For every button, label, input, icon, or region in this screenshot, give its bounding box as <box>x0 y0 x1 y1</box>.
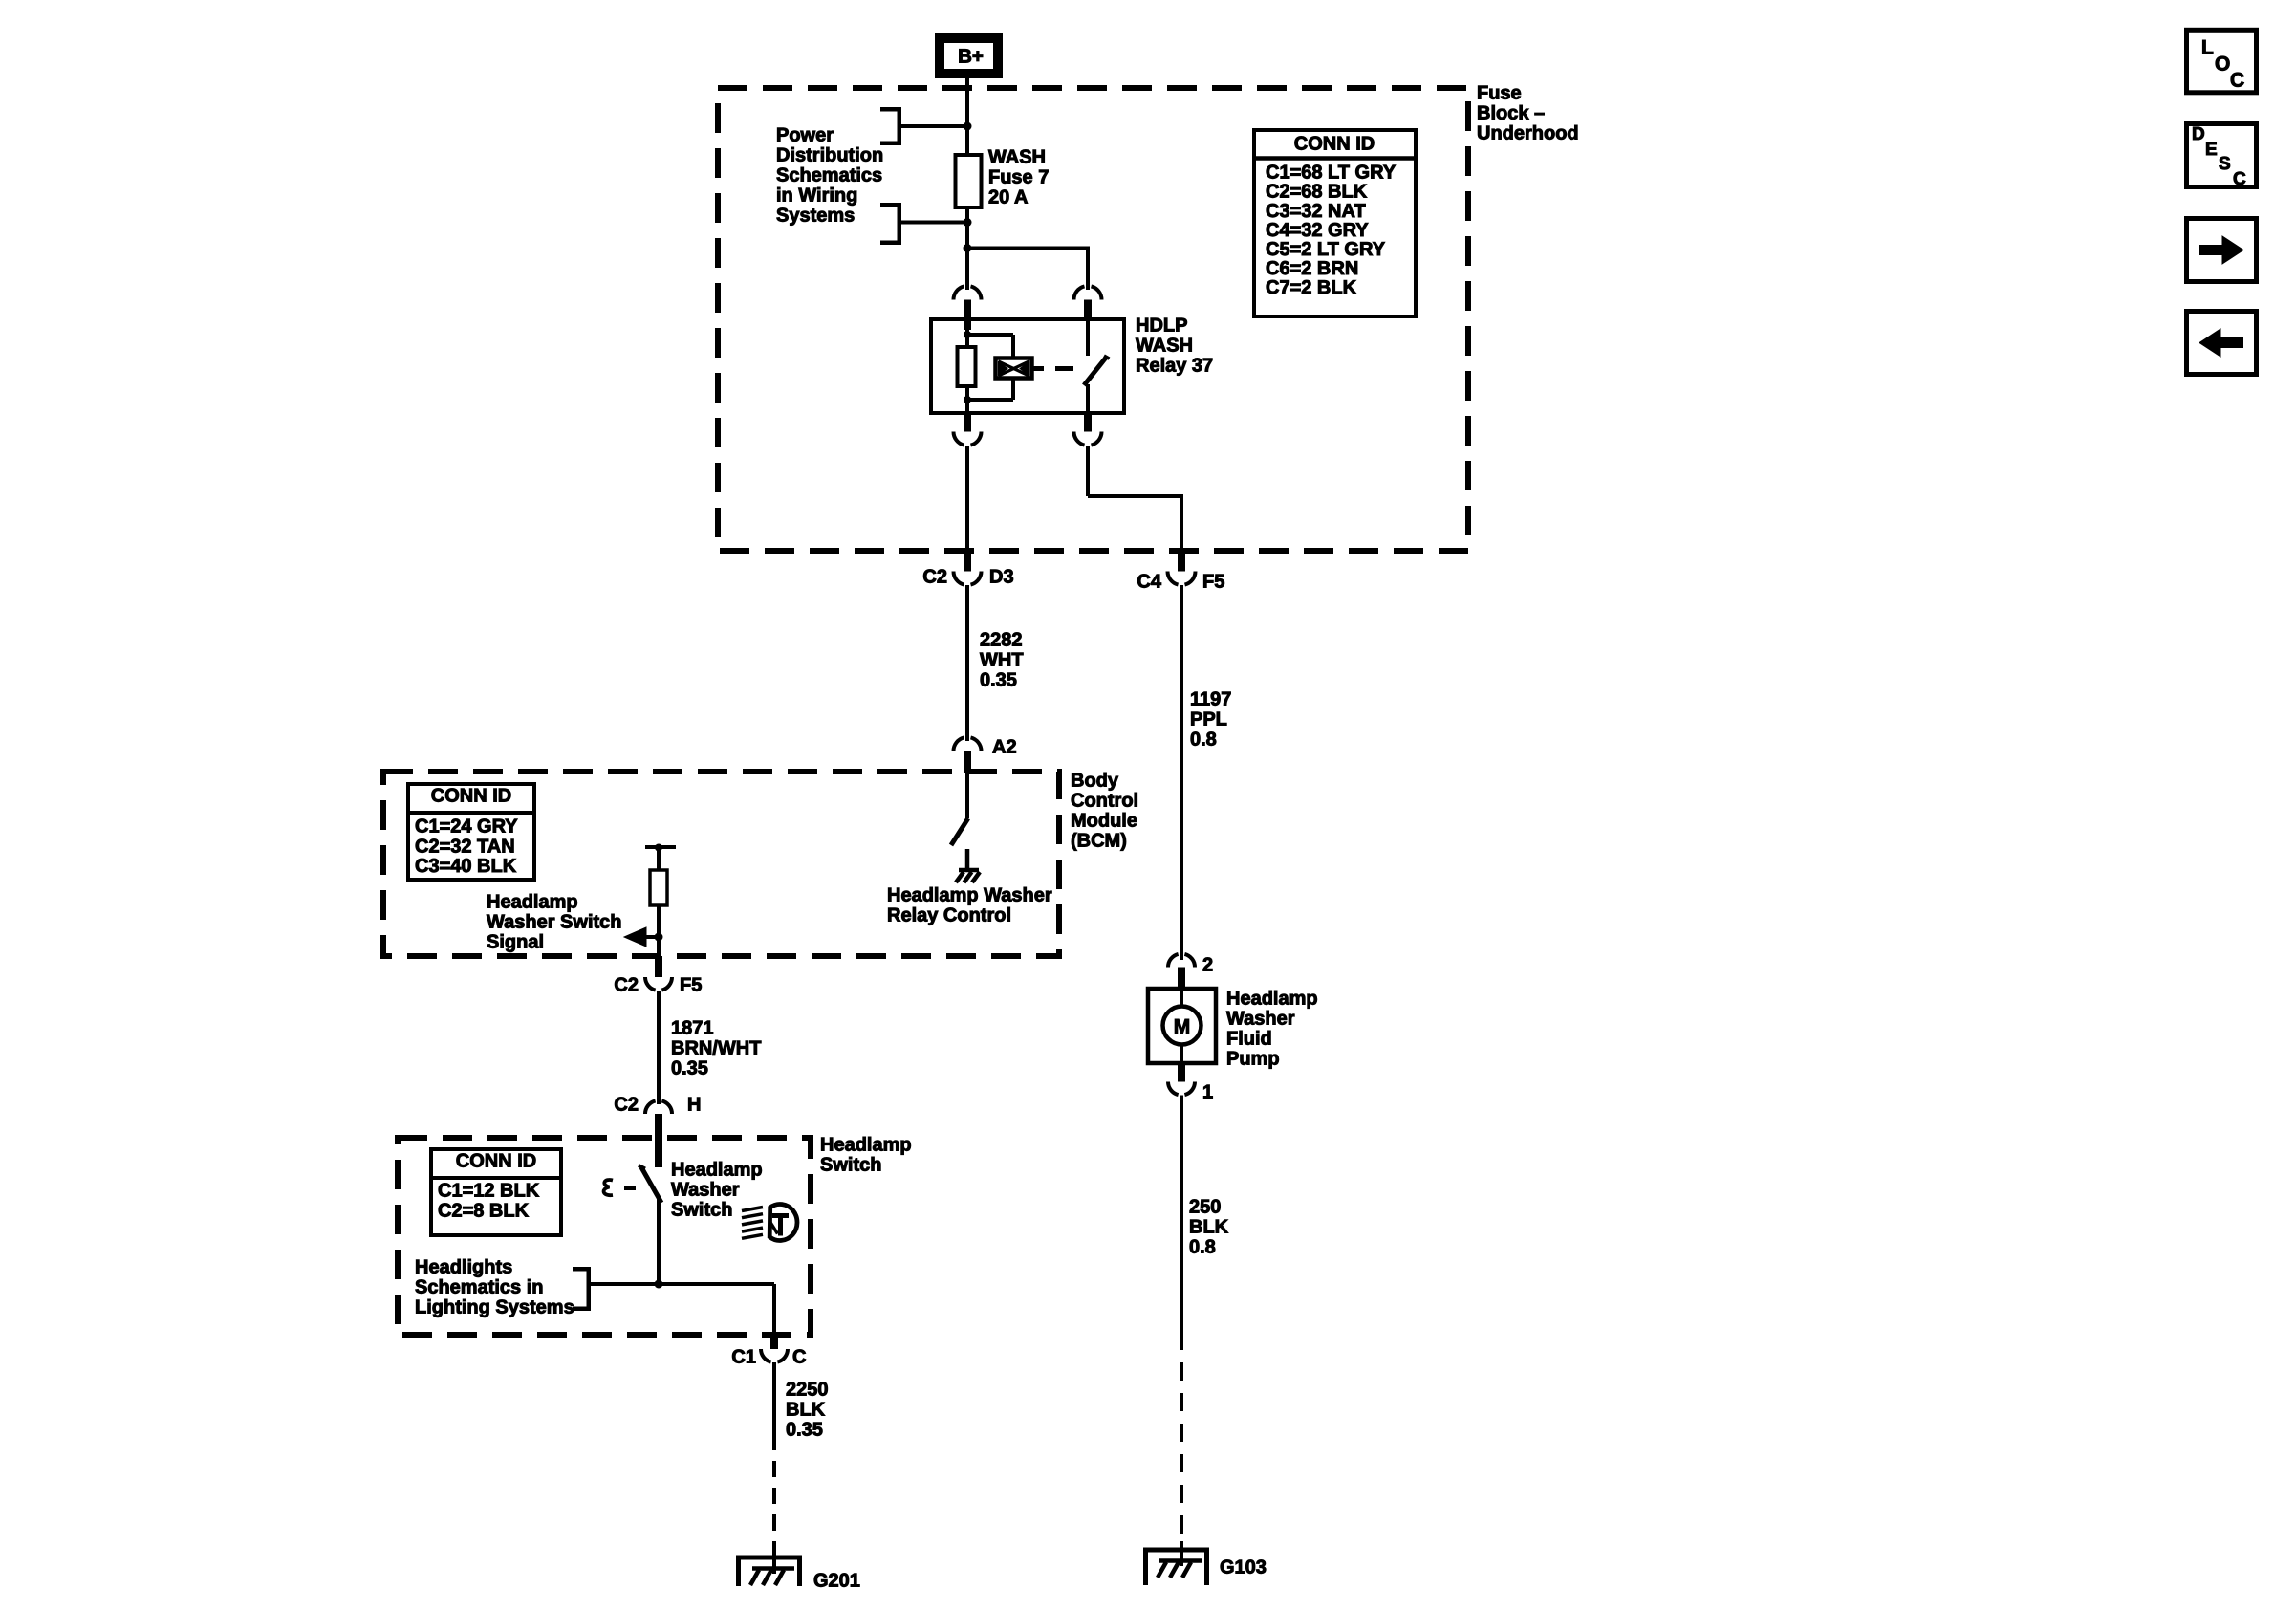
wire switch to lighting feed <box>657 1203 661 1284</box>
svg-text:Washer: Washer <box>1226 1009 1295 1030</box>
svg-text:C2: C2 <box>614 975 639 996</box>
relay coil feed stub <box>964 319 971 330</box>
svg-text:S: S <box>2219 154 2231 174</box>
connector C2 H at headlamp switch <box>645 1100 656 1114</box>
wire coil parallel branch <box>967 333 1013 337</box>
svg-text:PPL: PPL <box>1190 709 1227 730</box>
svg-text:C2: C2 <box>922 567 947 588</box>
svg-text:Relay Control: Relay Control <box>887 905 1011 926</box>
solenoid operator box with bowtie <box>996 359 1032 379</box>
headlamp switch dashed box <box>398 1138 811 1335</box>
svg-text:WHT: WHT <box>980 650 1024 671</box>
svg-text:C5=2 LT GRY: C5=2 LT GRY <box>1266 239 1386 260</box>
connector relay pin 85 out <box>964 413 971 432</box>
svg-text:L: L <box>2201 36 2214 58</box>
svg-text:Relay 37: Relay 37 <box>1136 356 1213 377</box>
svg-text:Headlamp: Headlamp <box>487 892 578 913</box>
wire relay coil to fuse block edge <box>965 446 969 551</box>
wire 250 BLK 0.8 <box>1180 1096 1183 1351</box>
svg-text:Lighting Systems: Lighting Systems <box>415 1297 574 1318</box>
connector A2 at BCM <box>953 737 964 751</box>
svg-text:0.35: 0.35 <box>980 670 1017 691</box>
motor headlamp washer fluid pump <box>1148 989 1216 1063</box>
svg-text:C2=32 TAN: C2=32 TAN <box>415 836 515 857</box>
svg-text:1871: 1871 <box>671 1018 714 1039</box>
wire solenoid to switch (dashed actuation) <box>1031 366 1044 371</box>
svg-text:C2: C2 <box>614 1095 639 1116</box>
node lighting junction <box>655 1280 663 1289</box>
svg-text:Schematics in: Schematics in <box>415 1277 544 1298</box>
svg-text:Fluid: Fluid <box>1226 1029 1272 1050</box>
svg-text:2: 2 <box>1202 955 1213 976</box>
svg-text:Block –: Block – <box>1477 103 1545 124</box>
svg-text:Underhood: Underhood <box>1477 123 1579 144</box>
svg-text:A2: A2 <box>992 737 1017 758</box>
wire 2250 BLK 0.35 <box>772 1362 776 1450</box>
svg-text:Washer: Washer <box>671 1180 740 1201</box>
node branch junction to relay switch <box>964 244 972 252</box>
svg-text:F5: F5 <box>680 975 702 996</box>
svg-text:CONN ID: CONN ID <box>431 786 511 807</box>
svg-text:H: H <box>687 1095 701 1116</box>
svg-text:CONN ID: CONN ID <box>1294 134 1375 155</box>
connector C2 F5 at BCM bottom <box>655 956 662 977</box>
conn id table BCM <box>408 784 534 880</box>
wire relay switch to fuse block edge <box>1086 446 1090 496</box>
svg-text:D: D <box>2192 124 2205 144</box>
svg-text:Control: Control <box>1071 791 1138 812</box>
wire lighting bus <box>591 1282 774 1286</box>
node relay coil bottom junction <box>964 396 971 403</box>
svg-text:Headlamp Washer: Headlamp Washer <box>887 885 1052 906</box>
relay switch blade <box>1084 358 1106 385</box>
svg-text:C1=24 GRY: C1=24 GRY <box>415 816 518 838</box>
headlights schematics stub bracket <box>573 1267 591 1272</box>
fuse WASH Fuse 7 20A <box>956 155 982 207</box>
power distribution stub bracket lower <box>880 203 901 207</box>
svg-text:C2=68 BLK: C2=68 BLK <box>1266 182 1368 203</box>
svg-text:Headlights: Headlights <box>415 1257 512 1278</box>
connector pump pin 1 <box>1178 1063 1185 1082</box>
resistor BCM pullup <box>657 849 661 870</box>
svg-text:Washer Switch: Washer Switch <box>487 912 622 933</box>
svg-text:G103: G103 <box>1220 1557 1267 1578</box>
svg-text:Switch: Switch <box>820 1155 881 1176</box>
wire 1871 BRN/WHT 0.35 <box>657 991 661 1104</box>
wire dashed to G201 <box>772 1450 776 1551</box>
svg-text:BRN/WHT: BRN/WHT <box>671 1038 761 1059</box>
switch linkage symbol <box>604 1180 613 1195</box>
wire coil bottom <box>965 386 969 413</box>
connector relay pin 87 out <box>1084 413 1092 432</box>
power feed B+ <box>935 33 1003 78</box>
svg-text:F5: F5 <box>1202 572 1224 593</box>
svg-text:G201: G201 <box>813 1571 860 1592</box>
svg-text:C1=68 LT GRY: C1=68 LT GRY <box>1266 163 1397 184</box>
connector C4 F5 <box>1178 551 1185 572</box>
wire B+ to fuse <box>965 78 969 155</box>
wire bracket lower to main <box>901 221 967 225</box>
svg-text:C3=32 NAT: C3=32 NAT <box>1266 201 1366 222</box>
svg-text:C3=40 BLK: C3=40 BLK <box>415 856 517 877</box>
icon box arrow left <box>2187 312 2257 375</box>
svg-text:0.8: 0.8 <box>1190 729 1217 751</box>
svg-text:Distribution: Distribution <box>776 145 883 166</box>
svg-text:C: C <box>792 1347 806 1368</box>
conn id table headlamp switch <box>431 1149 561 1235</box>
svg-text:BLK: BLK <box>786 1400 826 1421</box>
svg-text:C: C <box>2233 169 2246 189</box>
svg-text:2250: 2250 <box>786 1380 829 1401</box>
arrow headlamp washer switch signal <box>646 935 659 939</box>
BCM driver switch blade <box>965 773 969 818</box>
svg-text:D3: D3 <box>989 567 1014 588</box>
wire 2282 WHT 0.35 <box>965 585 969 741</box>
relay HDLP WASH Relay 37 box <box>931 319 1124 413</box>
body control module dashed box <box>383 772 1059 956</box>
relay switch contact <box>1086 319 1090 356</box>
icon box DESC <box>2187 124 2257 187</box>
svg-text:Power: Power <box>776 125 834 146</box>
svg-text:C4=32 GRY: C4=32 GRY <box>1266 220 1369 241</box>
svg-text:Systems: Systems <box>776 206 855 227</box>
node relay coil top junction <box>964 331 971 338</box>
connector pump pin 2 <box>1168 954 1179 968</box>
ground G103 <box>1143 1548 1209 1553</box>
svg-text:Headlamp: Headlamp <box>671 1160 763 1181</box>
svg-text:Body: Body <box>1071 771 1119 792</box>
svg-text:M: M <box>1174 1015 1191 1037</box>
fuse block underhood dashed box <box>718 88 1468 551</box>
svg-text:Schematics: Schematics <box>776 165 882 186</box>
resistor relay coil <box>958 347 976 386</box>
svg-text:0.8: 0.8 <box>1189 1237 1216 1258</box>
icon box LOC <box>2187 30 2257 93</box>
svg-text:O: O <box>2215 53 2230 75</box>
wire fuse to relay <box>965 207 969 290</box>
svg-text:C1: C1 <box>731 1347 756 1368</box>
svg-text:in Wiring: in Wiring <box>776 185 857 207</box>
svg-text:0.35: 0.35 <box>786 1420 823 1441</box>
headlamp beam icon <box>742 1208 763 1211</box>
svg-text:HDLP: HDLP <box>1136 316 1187 337</box>
svg-text:E: E <box>2205 140 2218 160</box>
conn id table fuse block <box>1254 130 1416 316</box>
svg-text:Switch: Switch <box>671 1200 732 1221</box>
svg-text:Signal: Signal <box>487 932 544 953</box>
svg-text:C7=2 BLK: C7=2 BLK <box>1266 277 1357 298</box>
ground BCM internal <box>965 849 970 870</box>
svg-text:1197: 1197 <box>1190 689 1231 710</box>
connector C1 C <box>770 1335 778 1349</box>
svg-text:C6=2 BRN: C6=2 BRN <box>1266 258 1358 279</box>
svg-text:B+: B+ <box>958 46 984 68</box>
svg-text:BLK: BLK <box>1189 1217 1229 1238</box>
wire dashed to G103 <box>1180 1350 1183 1541</box>
svg-text:20 A: 20 A <box>988 187 1029 208</box>
power distribution stub bracket upper <box>880 107 901 112</box>
wire 1197 PPL 0.8 <box>1180 585 1183 960</box>
svg-text:Headlamp: Headlamp <box>820 1135 912 1156</box>
node junction below fuse <box>964 218 972 227</box>
svg-text:C1=12 BLK: C1=12 BLK <box>438 1181 540 1202</box>
node BCM signal junction <box>655 933 663 942</box>
svg-text:Headlamp: Headlamp <box>1226 989 1318 1010</box>
svg-text:WASH: WASH <box>1136 336 1193 357</box>
svg-text:CONN ID: CONN ID <box>456 1151 536 1172</box>
connector relay pin 86 (coil feed) <box>953 286 964 299</box>
svg-text:250: 250 <box>1189 1197 1221 1218</box>
svg-text:C4: C4 <box>1137 572 1161 593</box>
svg-text:C: C <box>2230 69 2244 91</box>
node junction at fuse top <box>964 122 972 131</box>
svg-text:(BCM): (BCM) <box>1071 831 1127 852</box>
svg-text:WASH: WASH <box>988 147 1046 168</box>
svg-text:2282: 2282 <box>980 630 1023 651</box>
svg-text:Fuse 7: Fuse 7 <box>988 167 1049 188</box>
svg-text:Fuse: Fuse <box>1477 83 1522 104</box>
svg-text:Pump: Pump <box>1226 1049 1280 1070</box>
BCM pullup rail bar <box>645 845 676 849</box>
svg-text:Module: Module <box>1071 811 1137 832</box>
icon box arrow right <box>2187 219 2257 282</box>
svg-text:1: 1 <box>1202 1082 1213 1103</box>
headlamp washer switch blade <box>639 1165 645 1169</box>
ground G201 <box>736 1556 802 1560</box>
wire branch to relay switch leg <box>967 247 1088 250</box>
connector relay pin 30 (switch feed) <box>1074 286 1085 299</box>
svg-text:0.35: 0.35 <box>671 1058 708 1079</box>
svg-text:C2=8 BLK: C2=8 BLK <box>438 1201 530 1222</box>
connector C2 D3 <box>964 551 971 572</box>
wire bracket to B+ feed <box>901 124 967 128</box>
